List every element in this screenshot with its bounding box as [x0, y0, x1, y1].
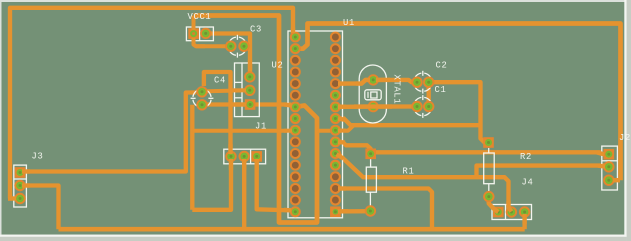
connector VCC1 outline: [186, 27, 213, 41]
capacitor C1 pad 1: [411, 101, 422, 112]
wire overdraw J3 pin3 stub: [8, 196, 16, 200]
connector VCC1 pad 2: [200, 28, 211, 39]
IC U1 pad 1 (square): [330, 206, 341, 217]
wire overdraw U1 pad2 riser: [305, 28, 309, 37]
wire overdraw U1 pad11R exit: [337, 154, 344, 158]
connector J4 outline: [492, 205, 532, 220]
resistor R2 pad 1: [483, 137, 494, 148]
IC U1 pad left 1: [290, 32, 301, 43]
wire C2 to R2 top: [429, 82, 489, 142]
resistor R1 pad 2: [365, 205, 376, 216]
wire U1 pad14R to J4 pin3: [335, 189, 432, 230]
wire overdraw C3 drop: [248, 60, 252, 70]
connector J3 pad 2: [14, 180, 25, 191]
wire overdraw U1 pad9R exit: [338, 129, 346, 133]
connector J2 pad 2: [603, 161, 614, 172]
capacitor C1 outline: [415, 95, 430, 118]
wire overdraw XTAL1 bottom row: [354, 104, 392, 108]
regulator U2 pad 3: [245, 99, 256, 110]
connector J3 pad 1: [15, 167, 26, 178]
regulator U2 pad 2: [244, 85, 255, 96]
IC U1 pad right 10: [330, 136, 341, 147]
IC U1 pad right 15: [330, 195, 341, 206]
capacitor C2 outline: [415, 71, 430, 94]
svg-text:C3: C3: [250, 25, 262, 35]
wire overdraw U2 pin3 entry: [232, 102, 246, 106]
IC U1 pad left 3: [290, 55, 301, 66]
connector J3 pad 3: [14, 193, 25, 204]
crystal XTAL1 outline: [359, 65, 386, 123]
wire XTAL1 to C2: [373, 80, 417, 82]
IC U1 pad right 13: [330, 171, 341, 182]
wire overdraw U2 pin2 entry: [232, 88, 246, 92]
IC U1 pad left 5: [290, 78, 301, 89]
wire overdraw U1 pad16 entry: [284, 208, 291, 213]
wire U1 pad5R to XTAL1: [335, 80, 373, 84]
wire J2 pin3 stub: [610, 178, 620, 182]
resistor R2 lead bottom: [488, 184, 490, 192]
svg-text:C2: C2: [436, 61, 448, 71]
connector J1 outline: [224, 149, 266, 164]
crystal XTAL1 pad 2: [368, 101, 379, 112]
wire overdraw U1 pad10R exit: [338, 140, 345, 145]
wire R1 top to J2 pin1: [372, 152, 609, 154]
wire overdraw J2 pin3 stub: [613, 178, 620, 182]
capacitor C2 pad 2: [423, 77, 434, 88]
svg-text:U1: U1: [343, 18, 355, 28]
capacitor C4 outline: [191, 91, 214, 106]
wire overdraw J3 pin2 exit: [22, 183, 30, 187]
connector J1 pad 2: [239, 151, 250, 162]
regulator U2 outline: [235, 63, 260, 117]
IC U1 pad left 2: [290, 43, 301, 54]
svg-text:J2: J2: [619, 133, 631, 143]
wire VCC1 pin2 to C3: [206, 34, 250, 77]
IC U1 pad left 8: [290, 113, 301, 124]
wire U1 pad11R to J4 pin2: [335, 154, 511, 212]
IC U1 pad left 4: [290, 66, 301, 77]
resistor R1 lead bottom: [369, 192, 371, 205]
capacitor C3 pad 2: [238, 41, 249, 52]
IC U1 pad right 1: [330, 32, 341, 43]
svg-text:J3: J3: [32, 152, 44, 162]
wire overdraw J1 pin3 drop: [229, 159, 233, 170]
IC U1 pad right 12: [330, 160, 341, 171]
connector J1 pad 1: [251, 151, 262, 162]
wire J3 pin1 to C4: [20, 93, 196, 172]
IC U1 pad left 12: [290, 160, 301, 171]
IC U1 pad left 7: [290, 101, 301, 112]
IC U1 pad right 7: [330, 101, 341, 112]
IC U1 pad left 11: [290, 148, 301, 159]
wire overdraw J4 pin2 entry: [509, 201, 512, 212]
wire overdraw U1 pad8R exit: [338, 119, 346, 120]
wire overdraw J1 pin1 drop: [255, 159, 259, 170]
IC U1 pad left 13: [290, 171, 301, 182]
IC U1 pad left 16: [290, 206, 301, 217]
wire J4 pin3 riser: [522, 212, 526, 229]
IC U1 pad right 8: [330, 113, 341, 124]
resistor R2 pad 2: [483, 191, 494, 202]
wire C4 bottom to U1: [197, 105, 295, 107]
connector J1 divider: [250, 149, 252, 164]
wire J3 pin2 branch: [20, 186, 59, 230]
capacitor C2 pad 1: [411, 77, 422, 88]
crystal XTAL1 body: [365, 90, 381, 100]
wire overdraw XTAL1 left entry: [356, 80, 370, 84]
IC U1 pad right 5: [330, 78, 341, 89]
svg-text:R1: R1: [403, 167, 415, 177]
IC U1 pad right 11: [330, 148, 341, 159]
svg-text:C4: C4: [214, 76, 226, 86]
capacitor C1 pad 2: [423, 101, 434, 112]
capacitor C3 pad 1: [225, 41, 236, 52]
svg-text:VCC1: VCC1: [188, 12, 212, 22]
wire overdraw U1 pad7R exit: [338, 105, 346, 109]
wire overdraw U1 bottom crossing: [315, 210, 320, 223]
wire overdraw U1 pad14R exit: [338, 186, 346, 190]
wire J1 pin3 row: [192, 156, 231, 209]
wire net GND right loop: [295, 24, 620, 181]
wire VCC1 pin1 to C3 pad2: [194, 39, 231, 46]
regulator U2 tab line 1: [235, 81, 243, 83]
capacitor C3 outline: [230, 35, 245, 58]
svg-text:U2: U2: [272, 61, 284, 71]
wire overdraw U1 pad9L entry: [284, 129, 292, 133]
wire U1 pad7R to XTAL1 to C1: [335, 104, 417, 109]
IC U1 pad right 2: [330, 43, 341, 54]
wire C1 to C2 link: [427, 82, 431, 106]
IC U1 pad right 14: [330, 183, 341, 194]
IC U1 pad left 9: [290, 125, 301, 136]
wire overdraw XTAL1 right exit: [376, 78, 390, 82]
IC U1 pad right 9: [330, 125, 341, 136]
connector J2 divider: [602, 160, 618, 162]
wire C4 top to U2 pin2: [196, 90, 250, 91]
regulator U2 tab line 2: [235, 97, 243, 99]
wire C4 top riser to J1 pin1: [204, 72, 231, 156]
IC U1 pad right 4: [330, 66, 341, 77]
wire overdraw J1 pin1 top crossing: [228, 144, 232, 154]
wire overdraw VCC1 drop: [194, 38, 206, 46]
wire U1 pad9R merge: [335, 125, 353, 130]
wire U1 pad10R to R1: [335, 142, 370, 154]
connector VCC1 pad 1: [188, 28, 199, 39]
svg-text:XTAL1: XTAL1: [392, 75, 402, 105]
wire net mid row: [192, 129, 295, 133]
wire overdraw VCC1 riser: [192, 24, 196, 31]
resistor R2 lead top: [488, 148, 490, 153]
connector J4 divider: [505, 205, 507, 220]
connector J1 pad 3: [225, 151, 236, 162]
svg-text:R2: R2: [520, 152, 532, 162]
crystal XTAL1 pad 1: [368, 74, 379, 85]
connector J2 pad 3: [603, 175, 614, 186]
wire overdraw J1 pin2 drop: [242, 159, 246, 170]
wire U1 pad9 link: [317, 129, 335, 133]
wire VCC1 pin1 riser: [192, 16, 196, 34]
regulator U2 tab divider: [241, 63, 243, 117]
IC U1 pad right 6: [330, 90, 341, 101]
resistor R2 body: [484, 153, 495, 184]
wire overdraw J3 pin1 exit: [22, 169, 30, 173]
connector J4 pad 1: [493, 207, 504, 218]
svg-text:J4: J4: [522, 178, 534, 188]
svg-text:J1: J1: [255, 122, 267, 132]
connector J3 outline: [14, 165, 27, 207]
regulator U2 pad 1: [244, 71, 255, 82]
IC U1 outline: [288, 31, 343, 218]
connector J2 pad 1: [604, 149, 615, 160]
connector J4 pad 2: [506, 206, 517, 217]
wire J3 pin3 stub: [8, 196, 20, 200]
wire U1 pad1 bottom row to R1: [335, 209, 370, 214]
wire overdraw J4 pin3 entry: [522, 214, 526, 224]
wire overdraw U1 pad16 row: [338, 209, 348, 214]
svg-text:C1: C1: [435, 85, 447, 95]
resistor R1 body: [366, 167, 376, 192]
wire overdraw J2 pin2 entry: [598, 166, 605, 167]
wire overdraw U1 pad1 entry: [291, 28, 295, 34]
capacitor C4 pad 2: [196, 99, 207, 110]
wire C4 bottom drop: [190, 105, 194, 210]
wire net N1 top run: [194, 16, 318, 223]
resistor R1 pad 1: [365, 149, 376, 160]
connector J3 divider: [14, 178, 27, 180]
wire overdraw U1 pad5R exit: [338, 81, 346, 85]
wire branch to J2 pin2: [477, 166, 609, 178]
wire R2 bottom to J4 pin1: [489, 197, 499, 212]
wire C3 pad1 stub: [244, 44, 250, 48]
wire overdraw J4 pin1 entry: [489, 202, 499, 212]
connector J2 outline: [602, 146, 618, 190]
resistor R1 lead top: [370, 159, 372, 167]
wire J1 pin1 to U1 pad16: [257, 156, 296, 210]
wire J1 pin2 drop: [242, 156, 246, 229]
wire overdraw J2 pin1 entry: [597, 153, 604, 155]
wire bottom bus: [59, 227, 525, 232]
IC U1 pad left 10: [290, 136, 301, 147]
IC U1 pad left 15: [290, 195, 301, 206]
IC U1 pad left 6: [290, 90, 301, 101]
wire U1 pad8R to net: [335, 119, 480, 126]
wire overdraw U1 pad7L entry: [284, 105, 292, 106]
capacitor C4 pad 1: [196, 86, 207, 97]
IC U1 pad right 3: [330, 55, 341, 66]
IC U1 pad left 14: [290, 183, 301, 194]
connector VCC1 divider: [199, 27, 201, 41]
connector J4 pad 3: [519, 206, 530, 217]
wire net VCC top border: [10, 8, 293, 199]
